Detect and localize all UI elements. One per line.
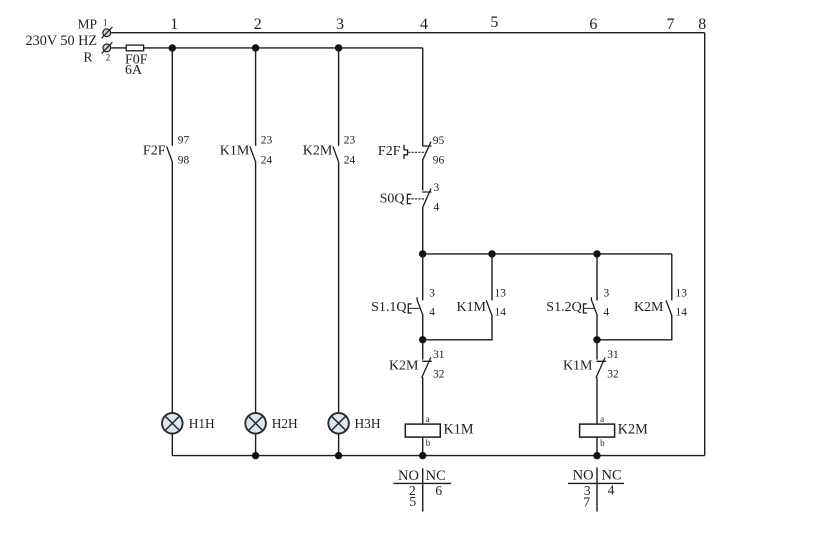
svg-text:32: 32 <box>433 369 445 381</box>
svg-text:13: 13 <box>676 288 688 300</box>
svg-text:3: 3 <box>434 182 440 194</box>
wire column 1 lower <box>171 434 173 456</box>
svg-text:K1M: K1M <box>444 421 474 437</box>
svg-text:4: 4 <box>429 307 435 319</box>
svg-text:S0Q: S0Q <box>380 192 405 207</box>
svg-text:K1M: K1M <box>220 144 250 159</box>
svg-text:14: 14 <box>495 307 507 319</box>
node dot branch rail column 6 <box>593 250 600 257</box>
svg-text:K2M: K2M <box>303 144 333 159</box>
svg-text:7: 7 <box>583 495 590 510</box>
svg-text:98: 98 <box>178 154 190 166</box>
svg-text:96: 96 <box>433 155 445 167</box>
svg-text:R: R <box>83 50 92 65</box>
svg-text:32: 32 <box>607 369 619 381</box>
svg-text:23: 23 <box>344 134 356 146</box>
contact K2M 31-32 (NC) <box>422 340 431 378</box>
svg-text:3: 3 <box>604 288 610 300</box>
svg-text:a: a <box>426 414 430 424</box>
wire branch rail <box>423 253 672 255</box>
svg-text:31: 31 <box>607 349 619 361</box>
wire column 4 S1.1Q to node <box>422 315 424 339</box>
svg-text:4: 4 <box>420 16 428 33</box>
lamp H3H <box>328 413 349 434</box>
svg-text:4: 4 <box>608 483 615 498</box>
lamp H2H <box>245 413 266 434</box>
contact F2F 95-96 (NC thermal overload) <box>404 142 431 159</box>
coil K2M <box>580 424 615 437</box>
svg-text:S1.2Q: S1.2Q <box>546 300 581 315</box>
pushbutton S0Q (NC) <box>407 189 431 207</box>
contact F2F 97-98 (NO) <box>167 147 173 162</box>
svg-text:2: 2 <box>254 16 262 33</box>
node dot branch rail K1M contact <box>488 250 495 257</box>
wire column 4 between F2F and S0Q <box>422 159 424 190</box>
node dot bottom rail column 4 <box>419 452 426 459</box>
svg-text:95: 95 <box>433 135 445 147</box>
wire column 4 to branch node <box>422 207 424 254</box>
svg-text:K1M: K1M <box>563 359 593 374</box>
svg-text:K2M: K2M <box>389 359 419 374</box>
svg-text:K2M: K2M <box>634 300 664 315</box>
svg-text:K1M: K1M <box>456 300 486 315</box>
svg-text:b: b <box>600 438 605 448</box>
node dot column 6 lower <box>593 336 600 343</box>
wire column 4 to S1.1Q <box>422 254 424 301</box>
wire column 3 lower <box>338 434 340 456</box>
contact K2M 13-14 (NO) <box>666 301 672 316</box>
svg-text:14: 14 <box>676 307 688 319</box>
svg-text:3: 3 <box>336 16 344 33</box>
wire K1M 13-14 drop <box>491 254 493 301</box>
svg-text:4: 4 <box>434 202 440 214</box>
wire MP top rail <box>111 32 705 34</box>
wire coil K2M to bottom rail <box>596 437 598 456</box>
wire coil K1M to bottom rail <box>422 437 424 456</box>
svg-text:NO: NO <box>398 468 419 484</box>
wire K2M 13-14 lower <box>597 316 672 340</box>
contact K1M 31-32 (NC) <box>596 340 605 378</box>
svg-text:S1.1Q: S1.1Q <box>371 300 406 315</box>
wire column 3 upper <box>338 48 340 146</box>
svg-text:a: a <box>600 414 604 424</box>
wire K2M 13-14 drop <box>671 254 673 301</box>
svg-text:NO: NO <box>573 467 594 483</box>
wire column 4 upper <box>422 48 424 145</box>
svg-text:5: 5 <box>409 494 416 509</box>
contact K1M 23-24 (NO) <box>250 147 256 162</box>
wire column 6 S1.2Q drop <box>596 254 598 301</box>
wire column 4 to coil K1M <box>422 377 424 424</box>
wire R rail from fuse to column 4 <box>144 47 423 49</box>
svg-text:7: 7 <box>667 16 675 33</box>
svg-text:H3H: H3H <box>355 416 381 431</box>
svg-text:1: 1 <box>170 16 178 33</box>
wire bottom MP return rail <box>172 455 704 457</box>
svg-text:24: 24 <box>261 154 273 166</box>
wire column 2 middle <box>255 162 257 413</box>
svg-text:8: 8 <box>698 16 706 33</box>
svg-text:23: 23 <box>261 134 273 146</box>
pushbutton S1.1Q (NO) <box>408 298 423 316</box>
wire column 2 upper <box>255 48 257 146</box>
contact K2M 23-24 (NO) <box>333 147 339 162</box>
svg-text:6: 6 <box>435 483 442 498</box>
wire R from terminal to fuse <box>111 47 126 49</box>
svg-text:6: 6 <box>589 16 597 33</box>
svg-text:F2F: F2F <box>378 144 401 159</box>
node dot bottom rail column 6 <box>593 452 600 459</box>
terminal 1 <box>102 27 113 38</box>
svg-text:24: 24 <box>344 154 356 166</box>
svg-text:3: 3 <box>429 288 435 300</box>
node dot R rail column 2 <box>252 44 259 51</box>
coil K1M <box>405 424 440 437</box>
svg-text:5: 5 <box>490 14 498 31</box>
svg-text:2: 2 <box>106 53 111 63</box>
wire column 6 S1.2Q to node <box>596 315 598 339</box>
node dot bottom rail column 3 <box>335 452 342 459</box>
svg-text:F2F: F2F <box>143 144 166 159</box>
wire column 1 middle <box>171 162 173 413</box>
wire K1M 13-14 lower <box>423 316 492 340</box>
K2M contact cross-reference table <box>568 468 624 512</box>
wire column 6 to coil K2M <box>596 377 598 424</box>
wire column 3 middle <box>338 162 340 413</box>
wire column 2 lower <box>255 434 257 456</box>
svg-text:H1H: H1H <box>189 416 215 431</box>
terminal 2 <box>102 42 113 53</box>
svg-text:6A: 6A <box>125 63 143 78</box>
svg-text:MP: MP <box>77 17 97 32</box>
fuse F0F <box>126 45 143 51</box>
svg-text:NC: NC <box>426 468 446 484</box>
svg-text:230V 50 HZ: 230V 50 HZ <box>26 33 97 49</box>
wire right edge (column 8) <box>704 33 706 456</box>
svg-text:1: 1 <box>103 17 108 27</box>
lamp H1H <box>162 413 183 434</box>
svg-text:H2H: H2H <box>272 416 298 431</box>
node dot bottom rail column 2 <box>252 452 259 459</box>
svg-text:K2M: K2M <box>618 421 648 437</box>
node dot branch rail column 4 <box>419 250 426 257</box>
svg-text:NC: NC <box>602 467 622 483</box>
node dot R rail column 1 <box>169 44 176 51</box>
K1M contact cross-reference table <box>393 468 451 511</box>
svg-text:4: 4 <box>604 307 610 319</box>
svg-text:97: 97 <box>178 134 190 146</box>
node dot column 4 lower <box>419 336 426 343</box>
svg-text:13: 13 <box>495 288 507 300</box>
svg-text:b: b <box>426 438 431 448</box>
pushbutton S1.2Q (NO) <box>584 298 598 316</box>
contact K1M 13-14 (NO) <box>486 301 492 316</box>
node dot R rail column 3 <box>335 44 342 51</box>
wire column 1 upper <box>171 48 173 146</box>
svg-text:31: 31 <box>433 349 445 361</box>
